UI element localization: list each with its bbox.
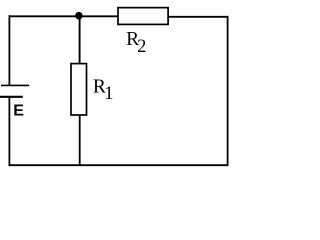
svg-text:1: 1 <box>104 84 113 104</box>
svg-text:E: E <box>13 103 24 120</box>
svg-text:2: 2 <box>137 37 146 57</box>
